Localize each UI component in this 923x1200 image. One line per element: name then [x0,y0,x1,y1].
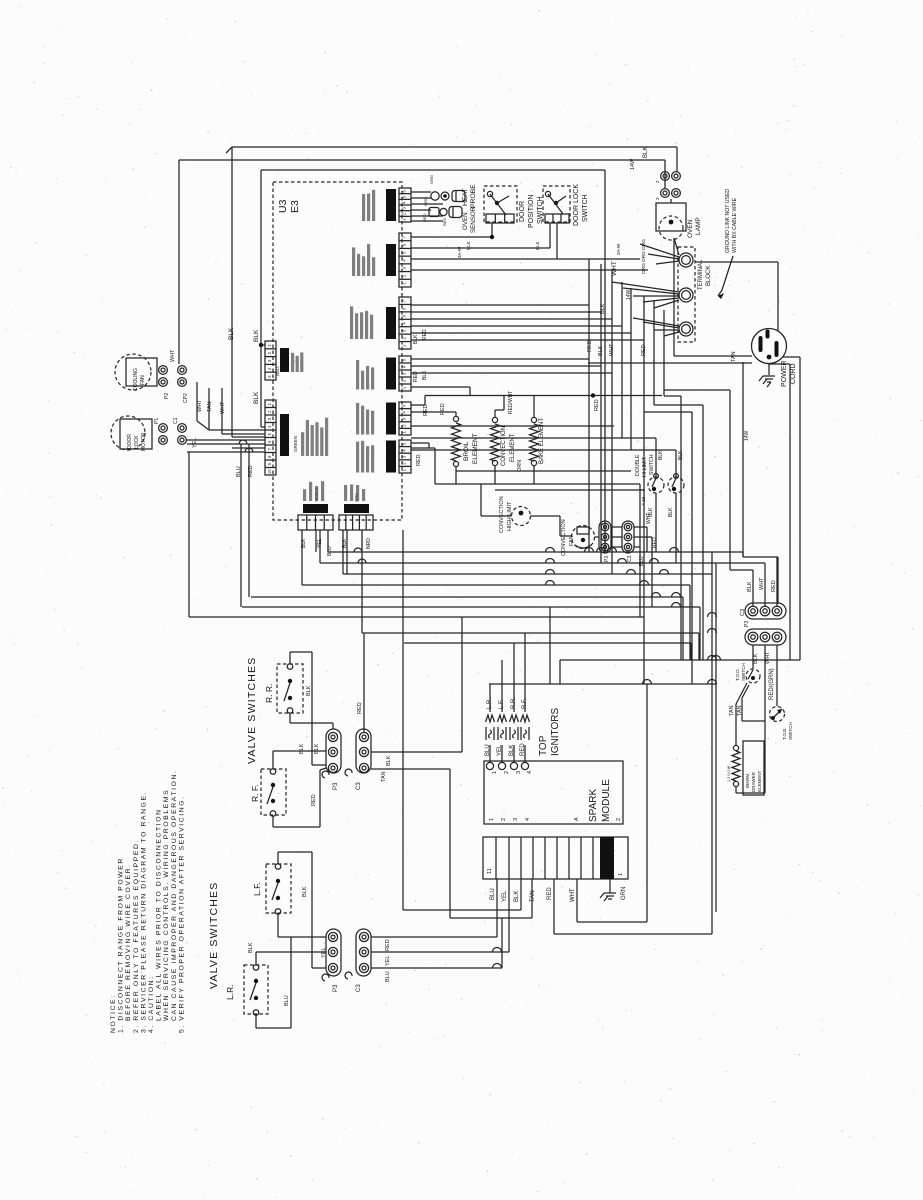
svg-text:E3: E3 [289,200,301,213]
svg-text:RED: RED [652,537,658,548]
wire p3 wht down [764,645,766,721]
svg-text:4: 4 [267,425,272,428]
bus y633 [362,632,699,634]
wire top bus BLK [232,146,677,148]
wire strip red [553,879,555,934]
svg-text:FAN: FAN [569,535,575,546]
svg-text:1: 1 [492,771,498,774]
bundle wire 6 [643,296,645,617]
cooling fan [115,354,151,390]
connector P1 [159,424,168,433]
connector strip green [265,400,276,475]
svg-text:BLK: BLK [228,327,235,340]
wire strip tan [531,879,533,918]
svg-text:ORG: ORG [641,251,647,262]
wire strip wht [576,879,578,922]
svg-text:C3: C3 [356,984,362,992]
connector C3 upper [356,729,371,773]
wires TAN [736,683,747,704]
svg-text:C1: C1 [173,417,179,424]
spark module pins [486,762,493,769]
convection fan [572,526,595,549]
svg-text:5: 5 [402,314,407,317]
wire x550 down [549,607,551,684]
connector strip black [399,233,411,287]
svg-text:P3: P3 [333,782,339,790]
bus y684 [489,683,716,685]
svg-text:3A-W: 3A-W [616,243,621,255]
svg-text:RED: RED [520,743,526,756]
wire c3 blk [371,751,462,753]
svg-text:3: 3 [655,197,660,200]
door lock switch [543,186,570,222]
power cord plug [752,329,787,364]
svg-text:POSITION: POSITION [528,195,535,228]
svg-text:10: 10 [267,469,272,474]
svg-text:P3: P3 [333,984,339,992]
svg-text:BLK: BLK [253,329,260,342]
bus y552 [328,551,743,553]
svg-text:ORG: ORG [641,263,647,274]
connector P2 [159,366,168,375]
svg-text:4: 4 [525,818,531,821]
wire bottom strip 4 [342,530,344,574]
svg-text:3: 3 [267,359,272,362]
svg-text:1. DISCONNECT RANGE FROM POWE: 1. DISCONNECT RANGE FROM POWER [118,857,125,1033]
svg-text:3: 3 [402,207,407,210]
svg-text:BLK: BLK [306,685,312,696]
ground GRN [609,879,611,893]
svg-text:BLK: BLK [386,755,392,766]
spark module box [484,761,623,824]
terminal 2 [679,288,693,302]
wire WHT motor [196,382,198,421]
svg-text:BLU: BLU [236,466,242,477]
svg-text:TERMINAL: TERMINAL [698,259,704,290]
wire bottom strip 6 [361,530,363,633]
wire bottom strip 5 [346,530,348,574]
svg-text:L.F.: L.F. [252,882,262,896]
wire blue1 [411,304,589,306]
svg-text:YELLOW: YELLOW [391,414,396,434]
wire rf top [272,751,274,769]
valve switch L.R. [244,965,268,1014]
convection high limit [512,507,531,526]
wire blue5 [411,332,631,334]
svg-text:ORG: ORG [429,175,434,184]
wires yellow strip to sensor [411,191,431,193]
wire y438 long [411,437,656,439]
wire x403 blk down [402,530,404,752]
connector strip blue [399,297,411,349]
svg-text:CONVECTION: CONVECTION [499,496,505,533]
svg-text:SPARK: SPARK [588,789,599,822]
svg-text:P3: P3 [744,621,750,627]
wire hop arcs [239,440,247,444]
svg-text:ORG: ORG [641,239,647,250]
svg-text:RED: RED [413,371,419,382]
svg-text:BLK: BLK [314,743,320,754]
wire BLU long [240,444,242,607]
svg-text:SWITCH: SWITCH [582,194,589,222]
svg-text:5: 5 [402,195,407,198]
bus y643 [404,642,691,644]
connector strip white [399,440,411,473]
wire lr bottom [255,1015,257,1029]
svg-text:BLK: BLK [301,538,307,548]
wire blue4 [411,325,622,327]
svg-text:3A-W: 3A-W [457,246,462,258]
svg-text:NRD: NRD [366,538,372,549]
wire x647 down [646,684,648,922]
svg-text:14W: 14W [630,158,636,170]
svg-text:5: 5 [267,432,272,435]
wire lr top [255,952,257,965]
svg-text:TAN: TAN [737,705,743,716]
svg-text:LAMP: LAMP [695,217,702,235]
wire rr top [289,652,291,664]
tiny text bottom2 [344,485,347,501]
svg-text:OVEN: OVEN [462,212,469,230]
svg-text:YELLOW: YELLOW [391,200,396,220]
valve switch R.F. [261,769,286,815]
wires ignitors up [489,684,491,712]
svg-text:BAKE ELEMENT: BAKE ELEMENT [539,418,545,464]
wire power cord top [777,304,779,331]
svg-text:1 2 0 0 W: 1 2 0 0 W [727,765,731,782]
svg-text:RED: RED [440,403,446,415]
terminal strip [483,837,628,879]
svg-text:TAN: TAN [731,351,737,362]
svg-text:CONVECTION: CONVECTION [561,519,567,556]
wire x712 long [711,552,713,934]
svg-text:3: 3 [516,771,522,774]
svg-text:BLK: BLK [422,370,428,380]
svg-text:GREEN: GREEN [391,372,396,388]
svg-text:* 18: * 18 [641,496,646,505]
svg-text:BLK: BLK [643,147,649,158]
label block bottom1 [303,504,328,513]
svg-text:LOCK: LOCK [134,435,140,449]
wire green3 [411,372,612,374]
svg-text:WHT: WHT [759,577,765,590]
connector CP2 [178,366,187,375]
svg-text:14W: 14W [744,430,750,441]
fan wires terminal3 [633,318,679,326]
svg-text:DOOR: DOOR [127,434,133,449]
svg-text:RED: RED [547,887,553,900]
svg-text:2: 2 [616,818,622,821]
wire red top [425,395,662,397]
wire c3l blu [371,967,502,969]
connector P3 upper [326,729,341,773]
wire top bus WHT [179,159,665,161]
double hi limit switch A [648,477,664,493]
bundle wire 3 [611,270,613,574]
svg-text:BLU: BLU [485,744,491,756]
svg-text:GREEN: GREEN [293,436,298,452]
connector strip bottom2 [339,515,373,530]
connector strip green2 [399,356,411,391]
svg-text:RED: RED [385,939,391,951]
wire BLK vert [231,147,233,437]
svg-text:OVEN: OVEN [687,219,694,238]
wire blue2 [411,311,601,313]
svg-text:BEFORE REMOVING WIRE COVER.: BEFORE REMOVING WIRE COVER. [125,863,132,1021]
svg-text:RED: RED [422,329,428,340]
svg-text:CORD: CORD [790,363,797,384]
svg-text:BLK: BLK [535,241,540,250]
warm drawer element [733,745,738,750]
terminal block [678,247,695,342]
svg-text:2: 2 [267,351,272,354]
svg-text:2: 2 [402,274,407,277]
svg-text:IGNITORS: IGNITORS [550,708,561,756]
svg-text:TAN: TAN [729,705,735,716]
svg-text:BLU: BLU [284,995,290,1006]
svg-text:BLK: BLK [514,891,520,902]
svg-text:BLK: BLK [466,241,471,250]
wire element bottoms 2 [456,470,631,472]
svg-text:7: 7 [267,447,272,450]
svg-text:BLK: BLK [342,538,348,548]
svg-text:P1: P1 [154,418,160,424]
bake element [531,417,536,422]
svg-text:3: 3 [267,417,272,420]
svg-text:MODULE: MODULE [601,779,612,822]
svg-text:RED: RED [422,213,427,222]
svg-text:WHEN SERVICING CONTROLS. WIRIN: WHEN SERVICING CONTROLS. WIRING PROBLEMS [163,789,170,1021]
svg-text:5: 5 [402,442,407,445]
svg-text:4: 4 [402,322,407,325]
svg-text:P3: P3 [604,556,610,562]
wire strip yel [508,879,510,952]
svg-text:SWITCH: SWITCH [788,722,793,740]
wire WHT 2 [221,388,223,434]
svg-text:RED: RED [423,404,429,416]
svg-text:6: 6 [402,243,407,246]
wire BLK vert 2 [260,170,262,427]
wire c3l yel [371,951,509,953]
junction dot [259,343,263,347]
wire element bottoms [435,483,640,485]
TOD switch [746,669,760,683]
pointer line [722,256,733,290]
hops lower [493,948,502,953]
bundle wire 7 [653,300,655,405]
svg-text:SWITCH: SWITCH [649,454,655,475]
svg-text:HIGH LIMIT: HIGH LIMIT [507,501,513,531]
door lock motor [111,416,145,450]
svg-text:11: 11 [487,868,493,874]
bus y563 [320,562,765,564]
svg-text:RED: RED [771,580,777,592]
wire strip blu [496,879,498,937]
svg-text:BLUE: BLUE [391,326,396,338]
svg-text:YEL: YEL [317,538,323,548]
svg-text:DRAWER: DRAWER [751,771,756,792]
svg-text:C3: C3 [356,782,362,790]
svg-text:BLK: BLK [648,507,654,517]
svg-text:PROBE: PROBE [470,184,477,208]
svg-text:2: 2 [501,818,507,821]
svg-text:BLU: BLU [639,556,645,566]
svg-text:8: 8 [267,455,272,458]
svg-text:ORN: ORN [517,460,523,472]
wire x450 tan down [449,769,451,918]
svg-text:BLK: BLK [753,653,759,664]
wires C3 fan right [634,526,647,528]
convection element [492,417,497,422]
connector strip yellow (oven sensor) [399,188,411,222]
svg-text:ELEMENT: ELEMENT [757,770,762,792]
wire y412 broil [411,411,456,413]
bus y574 [343,573,712,575]
svg-text:BLK: BLK [658,450,664,460]
svg-text:BLK: BLK [253,391,260,404]
bundle wire 8 [663,310,665,396]
wire y426 long [411,425,614,427]
svg-text:BLACK: BLACK [391,260,396,275]
wire black2 [411,247,550,249]
wire white misc [411,442,429,444]
svg-text:CP2: CP2 [183,393,189,403]
svg-text:3. SERVICER PLEASE RETURN DIA: 3. SERVICER PLEASE RETURN DIAGRAM TO RAN… [140,791,147,1033]
svg-text:WHITE: WHITE [391,457,396,472]
oven sensor symbol [429,208,439,217]
svg-text:FAN: FAN [140,375,146,385]
wire vert to cooling fan [178,160,180,364]
control board U3 E3 [273,182,402,520]
svg-text:RED: RED [275,366,280,376]
svg-text:SENSOR: SENSOR [470,206,477,233]
svg-text:3: 3 [402,417,407,420]
svg-text:R. R.: R. R. [264,684,274,703]
svg-text:C3: C3 [740,609,746,616]
connector strip door lock [265,341,276,380]
wire p3 blk down [752,645,754,669]
TOB switch [770,707,785,722]
connector C3 lower [356,929,371,976]
svg-text:R. F.: R. F. [250,785,260,802]
bus y660 [560,659,800,661]
wire c3l red [371,936,497,938]
wire blue6 [411,339,644,341]
svg-text:YEL: YEL [497,744,503,756]
svg-text:WITH BX CABLE WIRE: WITH BX CABLE WIRE [732,197,738,253]
wire p3 red down [776,645,778,706]
svg-text:1: 1 [267,402,272,405]
lamp terminals row2 [661,189,670,198]
svg-text:1: 1 [402,386,407,389]
svg-text:BLK: BLK [678,450,684,460]
svg-text:A: A [574,817,580,821]
label block bottom2 [344,504,369,513]
svg-text:4: 4 [267,367,272,370]
svg-text:BLU: BLU [385,971,391,982]
svg-text:YEL: YEL [385,956,391,966]
svg-text:U3: U3 [277,199,289,213]
svg-text:RED: RED [587,340,593,352]
svg-text:RED: RED [416,454,422,466]
svg-text:BLOCK: BLOCK [706,266,712,286]
wire c3 tan [371,768,450,770]
tiny text bottom1 [303,489,306,501]
wire bottom strip 3 [327,530,329,552]
svg-text:HEAT: HEAT [462,188,469,206]
bundle wire 9 [673,238,675,356]
svg-text:YEL: YEL [192,438,198,448]
terminal 3 [679,322,693,336]
wire WHT long [261,169,605,171]
svg-text:4: 4 [402,201,407,204]
lamp terminals row1 [661,172,670,181]
svg-text:RED/WHT: RED/WHT [508,391,514,414]
svg-text:BLK: BLK [747,581,753,592]
connector strip yellow2 [399,402,411,435]
svg-text:1: 1 [402,430,407,433]
svg-text:WHT: WHT [170,349,176,362]
wire terminal1 to cord [695,261,778,263]
wire green4 [411,386,470,388]
svg-text:WHT: WHT [220,401,226,414]
svg-text:2: 2 [267,410,272,413]
svg-text:5. VERIFY PROPER OPERATION AF: 5. VERIFY PROPER OPERATION AFTER SERVICI… [178,795,185,1033]
svg-text:5: 5 [402,358,407,361]
connector strip bottom1 [298,515,333,530]
double hi limit switch B [668,477,684,493]
bundle wire 5 [630,288,632,450]
bus y597 [251,596,683,598]
svg-text:RED: RED [357,702,363,714]
wire blue3 [411,318,612,320]
svg-text:TOP: TOP [538,735,549,756]
door position switch [484,186,517,222]
wire green2 [411,365,601,367]
svg-text:6: 6 [402,190,407,193]
connector P3 lower [326,929,341,976]
svg-text:DOOR: DOOR [519,201,526,222]
svg-text:T.O.D.: T.O.D. [735,668,740,681]
svg-text:TAN: TAN [530,890,536,902]
nested L x703 [654,404,703,406]
svg-text:BROIL: BROIL [463,441,470,461]
valve switch L.F. [266,864,291,913]
label block door lock [280,348,289,372]
nested L x681 [664,395,681,397]
svg-text:BLU: BLU [327,546,333,556]
wire element bottoms 3 [495,489,645,491]
svg-text:2: 2 [504,771,510,774]
terminal 1 [679,253,693,267]
svg-text:ORG: ORG [423,197,428,206]
svg-text:WHT: WHT [570,888,576,902]
wire rf bottom [272,816,274,828]
svg-text:GROUND LINK NOT USED: GROUND LINK NOT USED [725,189,731,253]
svg-text:4: 4 [402,411,407,414]
wire strip blk [520,879,522,910]
svg-text:ELEMENT: ELEMENT [472,433,479,464]
svg-text:HI LIMIT: HI LIMIT [642,456,648,477]
nested L x730 [664,389,730,391]
ignitor symbols [486,715,495,722]
bundle wire 1 [588,259,590,552]
svg-text:WARM: WARM [745,774,750,788]
wire green1 [411,358,589,360]
heat probe symbol [431,192,439,200]
wire rr bottom [289,714,291,724]
wire black3 [411,258,640,260]
